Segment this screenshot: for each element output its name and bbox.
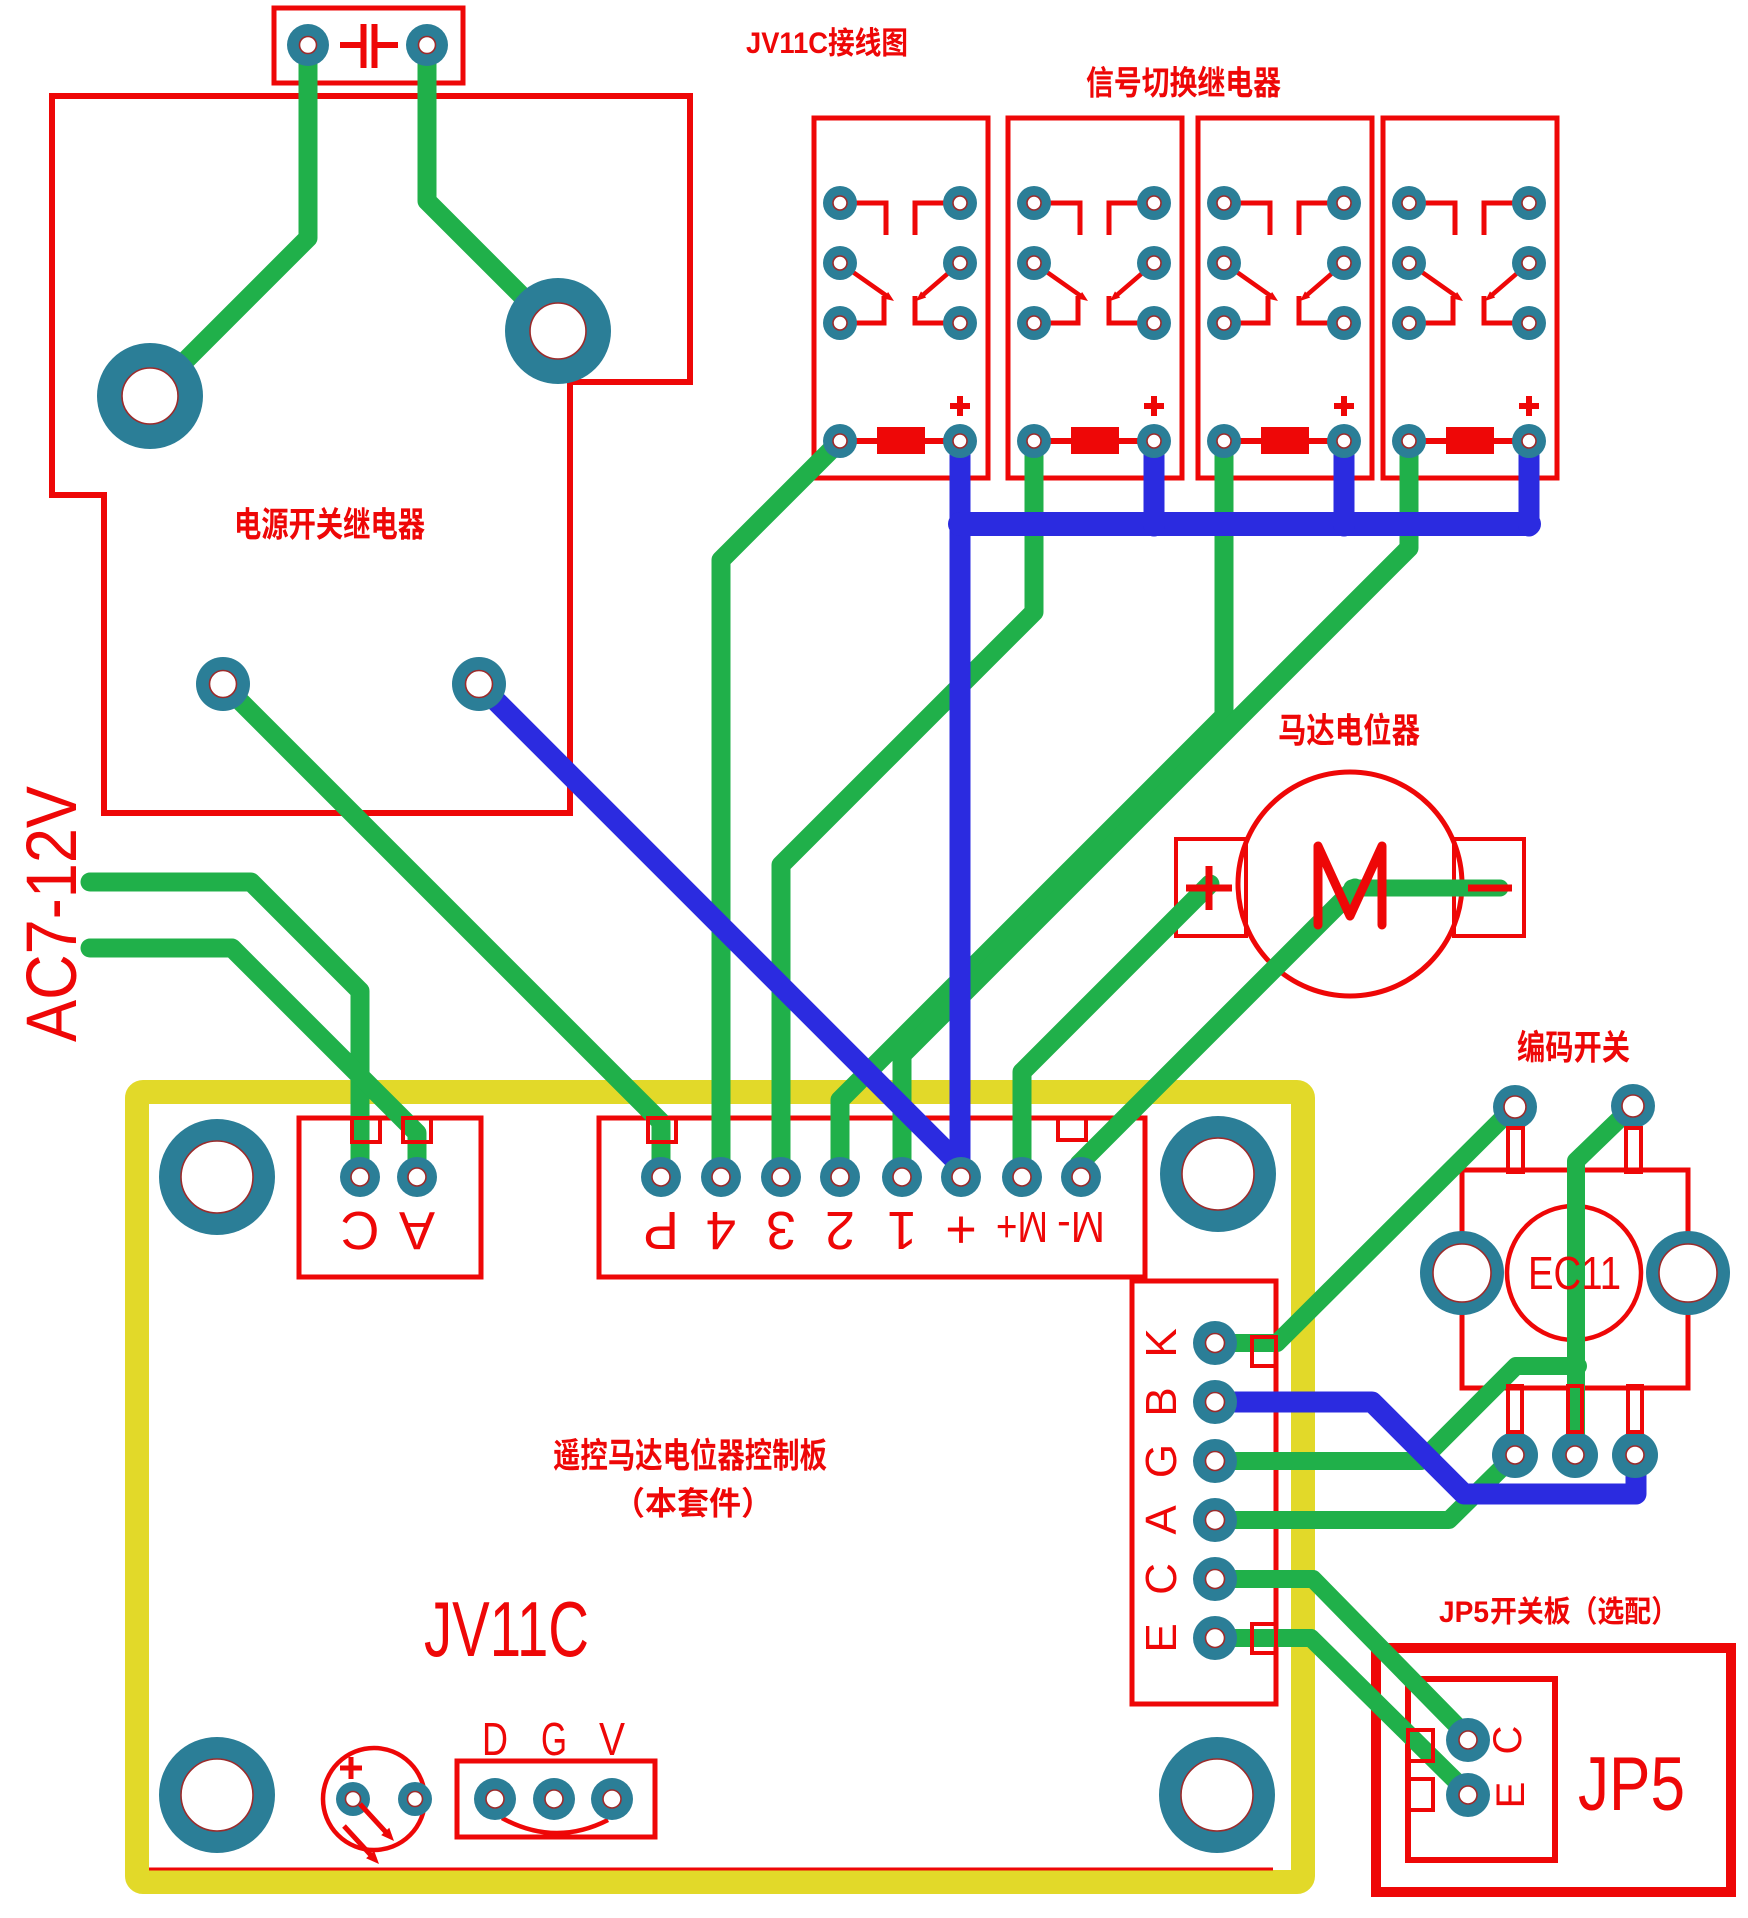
- wire net 3 (relay K2 coil to pad 3): [781, 441, 1034, 1165]
- svg-text:C: C: [1137, 1563, 1186, 1595]
- relay K1 plus mark: [950, 396, 970, 416]
- label （本套件）: [634, 1487, 752, 1518]
- relay K3 box: [1198, 118, 1372, 478]
- relay K3 armature arrows: [1224, 263, 1344, 301]
- title 接线图: [829, 27, 907, 57]
- pad K2.aL: [1017, 186, 1051, 220]
- pad EC11 side R: [1646, 1231, 1730, 1315]
- wire net M- (motor to pad M-): [1079, 888, 1355, 1172]
- svg-text:K: K: [1137, 1328, 1186, 1357]
- motor M1 plus mark: [1186, 866, 1232, 910]
- pad J3.E: [1193, 1616, 1237, 1660]
- relay K3 plus mark: [1334, 396, 1354, 416]
- J1 notch 1: [352, 1118, 380, 1142]
- label 信号切换继电器: [1087, 66, 1281, 98]
- svg-text:JV11C: JV11C: [424, 1585, 589, 1673]
- pad K4.aR: [1512, 186, 1546, 220]
- wire net PLUS relay K1 drop: [950, 441, 971, 1168]
- svg-text:1: 1: [887, 1200, 917, 1260]
- pad K4.bR: [1512, 246, 1546, 280]
- wire net P (power relay to pad P): [223, 684, 661, 1165]
- mounting hole H1: [159, 1119, 275, 1235]
- wire net M- motor lead: [1352, 880, 1500, 897]
- relay K1 contact wiring: [840, 203, 960, 323]
- pad K3.bL: [1207, 246, 1241, 280]
- pad J2.2: [820, 1157, 860, 1197]
- pad K2.aR: [1137, 186, 1171, 220]
- pad J2.4: [701, 1157, 741, 1197]
- EC11 stub bot1: [1508, 1386, 1522, 1432]
- EC11 stub top2: [1626, 1128, 1641, 1172]
- wire net PLUS relay K4 stub: [1519, 441, 1540, 526]
- relay K2 contact wiring: [1034, 203, 1154, 323]
- relay K4 contact wiring: [1409, 203, 1529, 323]
- pad K1.aR: [943, 186, 977, 220]
- pad K4.aL: [1392, 186, 1426, 220]
- wire net C (pad C to JP5): [1215, 1579, 1468, 1742]
- pad J2.M+: [1002, 1157, 1042, 1197]
- mounting hole H2: [1160, 1116, 1276, 1232]
- JP5 stub E: [1408, 1779, 1433, 1810]
- wire net M+ (motor to pad M+): [1022, 884, 1210, 1165]
- label 遥控马达电位器控制板: [554, 1437, 827, 1470]
- wire net PLUS (power relay to pad +): [479, 684, 961, 1166]
- main board JV11C outline: [137, 1092, 1303, 1882]
- pad K3 coil+: [1327, 424, 1361, 458]
- svg-text:4: 4: [706, 1200, 736, 1260]
- motor M1 plus terminal box: [1176, 839, 1246, 936]
- relay K4 coil: [1409, 427, 1529, 454]
- wire net B (pad B to encoder): [1215, 1402, 1636, 1494]
- pad J2.3: [761, 1157, 801, 1197]
- relay K4 plus mark: [1519, 396, 1539, 416]
- connector J4 arc: [502, 1818, 608, 1833]
- wire net E (pad E to JP5): [1215, 1638, 1468, 1793]
- label 电源开关继电器: [237, 507, 425, 540]
- EC11 stub bot3: [1628, 1386, 1642, 1432]
- svg-text:C: C: [1486, 1726, 1530, 1755]
- capacitor C1 symbol: [340, 24, 398, 68]
- pad EC11 side L: [1420, 1231, 1504, 1315]
- main board red edge line: [149, 1868, 1273, 1871]
- pad J3.B: [1193, 1380, 1237, 1424]
- svg-text:3: 3: [766, 1200, 796, 1260]
- pad K1.bR: [943, 246, 977, 280]
- pad K3.cL: [1207, 306, 1241, 340]
- relay K2 coil: [1034, 427, 1154, 454]
- LED D1 plus mark: [340, 1757, 362, 1779]
- connector J4 (DGV) box: [457, 1761, 655, 1837]
- pad K1.cL: [823, 306, 857, 340]
- pad K2 coil-: [1017, 424, 1051, 458]
- pad J2.1: [882, 1157, 922, 1197]
- capacitor C1 box: [274, 8, 463, 83]
- label 马达电位器: [1280, 712, 1420, 745]
- label 开关板（选配）: [1491, 1596, 1660, 1625]
- svg-text:M-: M-: [1057, 1202, 1105, 1251]
- pad K1 coil+: [943, 424, 977, 458]
- label 编码开关: [1518, 1030, 1630, 1063]
- relay K1 armature arrows: [840, 263, 960, 301]
- pad K2.cL: [1017, 306, 1051, 340]
- relay K1 coil: [840, 427, 960, 454]
- pad K1.cR: [943, 306, 977, 340]
- pad J1.C: [340, 1157, 380, 1197]
- pad J2.plus: [941, 1157, 981, 1197]
- svg-text:+: +: [945, 1200, 977, 1260]
- svg-text:G: G: [1137, 1444, 1186, 1478]
- pad K2 coil+: [1137, 424, 1171, 458]
- pad JP5.C: [1446, 1718, 1490, 1762]
- svg-text:EC11: EC11: [1528, 1247, 1621, 1299]
- wire net AC2 (AC7-12V to pad A): [90, 948, 417, 1165]
- EC11 stub bot2: [1568, 1386, 1582, 1432]
- JP5 board outer box: [1376, 1648, 1731, 1892]
- connector J1 (AC) box: [299, 1118, 481, 1277]
- relay K4 armature arrows: [1409, 263, 1529, 301]
- pad K2.cR: [1137, 306, 1171, 340]
- pad K4 coil+: [1512, 424, 1546, 458]
- encoder EC11 box: [1462, 1170, 1688, 1388]
- pad J3.C: [1193, 1557, 1237, 1601]
- pad K5.A (mount): [97, 343, 203, 449]
- svg-text:JV11C: JV11C: [746, 27, 828, 60]
- relay K2 armature arrows: [1034, 263, 1154, 301]
- pad K4.cL: [1392, 306, 1426, 340]
- wire net CAP-A (cap to relay pad): [150, 45, 308, 396]
- wire net CAP-B (cap to relay pad): [427, 45, 558, 332]
- pad JP5.E: [1446, 1773, 1490, 1817]
- pad K5.1: [196, 657, 250, 711]
- pad K4.cR: [1512, 306, 1546, 340]
- svg-text:B: B: [1137, 1387, 1186, 1416]
- relay K4 box: [1383, 118, 1557, 478]
- J1 notch 2: [403, 1118, 431, 1142]
- svg-text:A: A: [399, 1200, 435, 1260]
- pad EC11 top1: [1493, 1085, 1537, 1129]
- pad K3.bR: [1327, 246, 1361, 280]
- pad EC11 bot2: [1552, 1432, 1598, 1478]
- wire net K (pad K to encoder): [1215, 1106, 1515, 1343]
- pad K2.bL: [1017, 246, 1051, 280]
- J2 notch M-: [1058, 1118, 1086, 1140]
- wire net 4 (relay K1 coil to pad 4): [721, 441, 840, 1165]
- pad K5.2: [452, 657, 506, 711]
- pad K4.bL: [1392, 246, 1426, 280]
- pad EC11 top2: [1611, 1084, 1655, 1128]
- pad K3 coil-: [1207, 424, 1241, 458]
- connector J3 (ECAGBK) box: [1132, 1281, 1276, 1704]
- pad J3.A: [1193, 1498, 1237, 1542]
- relay K3 contact wiring: [1224, 203, 1344, 323]
- connector J2 (P..M-) box: [599, 1118, 1145, 1277]
- svg-text:JP5: JP5: [1439, 1596, 1489, 1629]
- pad J4.D: [474, 1778, 516, 1820]
- encoder EC11 circle: [1507, 1206, 1641, 1340]
- wire net 2 (relay K3 coil to pad 2): [840, 441, 1224, 1165]
- svg-text:G: G: [541, 1713, 567, 1765]
- wire net A (pad A to encoder): [1215, 1455, 1515, 1520]
- pad K1 coil-: [823, 424, 857, 458]
- motor M1 body circle: [1238, 772, 1462, 996]
- pad J3.G: [1193, 1439, 1237, 1483]
- pad K3.aR: [1327, 186, 1361, 220]
- motor M1 letter M: [1318, 846, 1382, 925]
- pad EC11 bot1: [1492, 1432, 1538, 1478]
- wire net PLUS coil bus: [960, 512, 1529, 536]
- JP5 stub C: [1408, 1730, 1433, 1761]
- mounting hole H4: [1159, 1737, 1275, 1853]
- power relay K5 outline: [52, 96, 690, 813]
- mounting hole H3: [159, 1737, 275, 1853]
- pad J4.G: [533, 1778, 575, 1820]
- LED D1 arrows: [344, 1804, 394, 1864]
- pad J2.P: [641, 1157, 681, 1197]
- svg-text:M+: M+: [996, 1202, 1048, 1251]
- svg-text:E: E: [1489, 1782, 1533, 1809]
- pad K1.bL: [823, 246, 857, 280]
- pad K3.cR: [1327, 306, 1361, 340]
- EC11 stub top1: [1508, 1128, 1523, 1172]
- wire net G (pad G to encoder): [1215, 1366, 1578, 1461]
- pad D1.-: [398, 1782, 432, 1816]
- svg-text:C: C: [341, 1200, 380, 1260]
- pad K2.bR: [1137, 246, 1171, 280]
- J3 stub E: [1252, 1624, 1276, 1653]
- wire net PLUS relay K3 stub: [1334, 441, 1355, 526]
- svg-text:A: A: [1137, 1505, 1186, 1535]
- pad EC11 bot3: [1612, 1432, 1658, 1478]
- svg-text:P: P: [643, 1200, 679, 1260]
- pad J4.V: [591, 1778, 633, 1820]
- J2 notch P: [648, 1118, 676, 1142]
- pad J1.A: [397, 1157, 437, 1197]
- relay K1 box: [814, 118, 988, 478]
- wire net G encoder vertical: [1576, 1106, 1633, 1455]
- wire net AC1 (AC7-12V to pad C): [90, 882, 360, 1165]
- relay K2 plus mark: [1144, 396, 1164, 416]
- svg-text:V: V: [599, 1713, 625, 1765]
- relay K2 box: [1008, 118, 1182, 478]
- pad D1.+: [336, 1782, 370, 1816]
- pad J3.K: [1193, 1321, 1237, 1365]
- JP5 connector inner box: [1408, 1679, 1555, 1860]
- relay K3 coil: [1224, 427, 1344, 454]
- J3 stub K: [1252, 1337, 1276, 1366]
- wire net PLUS relay K2 stub: [1144, 441, 1165, 526]
- svg-text:AC7-12V: AC7-12V: [13, 785, 92, 1042]
- svg-text:JP5: JP5: [1578, 1742, 1685, 1827]
- pad C1.1: [287, 24, 329, 66]
- svg-text:D: D: [482, 1713, 508, 1765]
- pad J2.M-: [1061, 1157, 1101, 1197]
- pad C1.2: [406, 24, 448, 66]
- motor M1 minus mark: [1468, 885, 1512, 892]
- pad K1.aL: [823, 186, 857, 220]
- LED D1 circle: [323, 1748, 425, 1850]
- pad K5.B (mount): [505, 278, 611, 384]
- wire net 1 (relay K4 coil to pad 1): [902, 441, 1409, 1165]
- pad K4 coil-: [1392, 424, 1426, 458]
- svg-text:E: E: [1137, 1623, 1186, 1652]
- svg-text:2: 2: [825, 1200, 855, 1260]
- pad K3.aL: [1207, 186, 1241, 220]
- motor M1 minus terminal box: [1454, 839, 1524, 936]
